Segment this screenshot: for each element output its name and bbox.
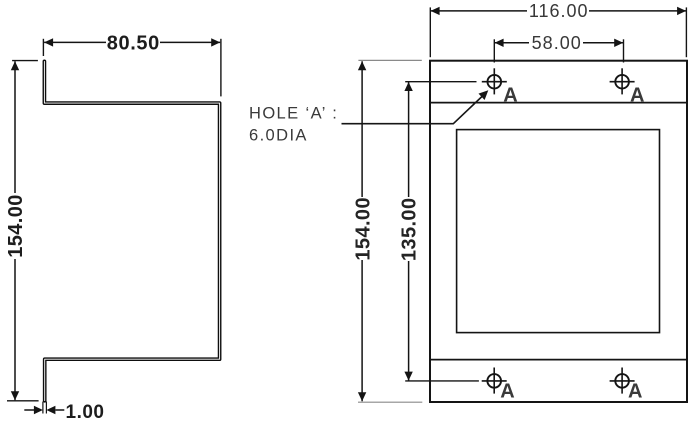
leader arrowhead: [479, 90, 489, 100]
top flange line: [430, 102, 687, 104]
svg-text:135.00: 135.00: [398, 198, 420, 262]
svg-text:A: A: [628, 381, 642, 403]
dim 80.50 line: [44, 41, 106, 43]
svg-text:A: A: [630, 85, 644, 107]
dim 116.00 arrow right: [677, 7, 686, 15]
sheet profile outline (double line): [44, 61, 219, 401]
hole A bottom-left: [482, 368, 507, 394]
dim 80.50 arrow left: [44, 38, 53, 46]
dim 135.00 extension line top: [405, 81, 476, 83]
dim 1.00 witness line right: [45, 402, 47, 414]
dim 1.00 left arrow: [24, 409, 35, 411]
dim 58.00 extension line right: [623, 39, 625, 62]
dim 1.00 right arrow: [56, 409, 65, 411]
dim 135.00 arrow bottom: [404, 372, 412, 381]
dim 58.00 arrow left: [495, 39, 504, 47]
dim 116.00 extension line right: [685, 7, 687, 57]
dim 80.50 extension line right: [220, 39, 222, 97]
dim 116.00 arrow left: [431, 7, 440, 15]
dim 154.00 (left view) extension line top: [12, 60, 38, 62]
dim 154.00 (left view) extension line bottom: [7, 400, 39, 402]
dim 135.00 extension line bottom: [405, 380, 479, 382]
dim 135.00 arrow top: [404, 82, 412, 91]
leader line from note to hole A top-left: [342, 96, 483, 124]
dim 154.00 (right view) extension line bottom (gray): [358, 401, 422, 403]
panel outline: [430, 61, 687, 402]
dim 135.00 line: [408, 82, 410, 197]
svg-text:80.50: 80.50: [107, 33, 160, 55]
hole A top-right: [610, 68, 635, 94]
svg-text:HOLE ‘A’ :: HOLE ‘A’ :: [249, 105, 338, 123]
hole A top-left: [482, 68, 507, 94]
dim 116.00 extension line left: [429, 7, 431, 57]
dim 58.00 line: [495, 42, 529, 44]
svg-text:6.0DIA: 6.0DIA: [249, 127, 308, 145]
dim 154.00 (right view) arrow bottom: [358, 392, 366, 401]
dim 116.00 line: [431, 10, 527, 12]
dim 58.00 extension line left: [493, 39, 495, 62]
svg-text:A: A: [500, 381, 514, 403]
dim 58.00 arrow right: [614, 39, 623, 47]
dim 154.00 (left view) arrow bottom: [11, 391, 19, 400]
dim 154.00 (right view) extension line top (gray): [358, 59, 421, 61]
dim 154.00 (right view) arrow top: [358, 61, 366, 70]
dim 154.00 (right view) line: [361, 61, 363, 197]
dim 1.00 witness line left: [42, 402, 44, 414]
dim 80.50 arrow right: [211, 38, 220, 46]
dim 154.00 (left view) arrow top: [11, 61, 19, 70]
svg-text:116.00: 116.00: [529, 1, 589, 21]
dim 154.00 (left view) line: [14, 61, 16, 193]
svg-text:58.00: 58.00: [532, 33, 582, 53]
svg-text:1.00: 1.00: [66, 402, 105, 423]
bottom flange line: [430, 359, 687, 361]
svg-text:A: A: [503, 85, 517, 107]
inner window square: [457, 130, 660, 333]
dim 80.50 extension line left: [42, 39, 44, 56]
svg-text:154.00: 154.00: [352, 197, 374, 261]
svg-text:154.00: 154.00: [5, 194, 27, 258]
hole A bottom-right: [610, 368, 635, 394]
